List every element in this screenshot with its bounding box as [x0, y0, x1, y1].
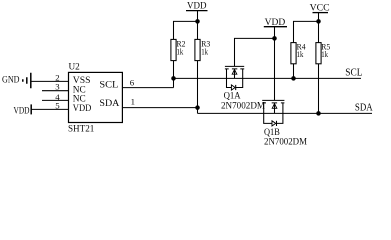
wire R3 bottom through SDA jog	[197, 61, 199, 114]
svg-text:1k: 1k	[201, 47, 208, 57]
pin 4 wire (NC stub)	[42, 99, 69, 101]
wire VDD stem to R3	[197, 21, 199, 39]
power VDD rail top-left	[186, 2, 208, 22]
resistor R3	[195, 39, 210, 61]
svg-text:1: 1	[131, 96, 135, 106]
svg-text:2N7002DM: 2N7002DM	[264, 137, 307, 147]
svg-text:SHT21: SHT21	[68, 124, 95, 134]
node SCL junction dot at R4	[291, 76, 296, 81]
wire VCC stem to R5	[318, 21, 320, 42]
wire R4 bottom to SCL	[293, 64, 295, 78]
junction dot gate bias split	[272, 36, 277, 41]
svg-text:1k: 1k	[297, 49, 304, 59]
svg-text:1k: 1k	[177, 47, 184, 57]
svg-text:VDD: VDD	[14, 106, 30, 116]
node SDA junction dot at R5	[316, 111, 321, 116]
pin 3 wire (NC stub)	[42, 90, 69, 92]
wire VDD branch to R2	[174, 21, 198, 39]
svg-text:VDD: VDD	[73, 104, 92, 114]
power VDD port left	[14, 104, 32, 116]
node SDA junction dot at R3	[195, 105, 200, 110]
svg-text:Q1A: Q1A	[224, 90, 241, 100]
svg-text:SDA: SDA	[99, 98, 119, 109]
node SCL junction dot at R2	[171, 76, 176, 81]
svg-text:SCL: SCL	[345, 67, 362, 78]
wire R5 bottom to SDA	[318, 64, 320, 113]
wire pin1 to R3 column	[122, 107, 197, 109]
junction dot VDD rail split	[195, 19, 200, 24]
resistor R5	[316, 41, 330, 64]
power VDD label mid (gate bias)	[264, 18, 287, 39]
svg-text:3: 3	[55, 82, 60, 92]
wire VCC branch to R4	[294, 21, 319, 42]
wire SCL bus	[174, 77, 362, 79]
svg-text:6: 6	[130, 78, 135, 88]
wire gate bias to Q1A gate	[235, 38, 275, 66]
svg-text:5: 5	[55, 100, 60, 110]
ground	[2, 73, 31, 89]
wire SDA bus	[198, 112, 373, 114]
svg-text:SCL: SCL	[99, 79, 118, 90]
wire gate bias to Q1B gate	[274, 38, 276, 100]
power VCC rail	[310, 4, 330, 22]
wire R2 bottom to SCL node	[173, 61, 175, 88]
op chip U2 SHT21	[68, 62, 122, 134]
svg-text:SDA: SDA	[355, 102, 373, 113]
svg-text:1k: 1k	[321, 49, 328, 59]
resistor R4	[291, 41, 306, 64]
wire pin6 to R2 column	[122, 87, 173, 89]
resistor R2	[171, 39, 186, 61]
svg-text:GND: GND	[2, 76, 20, 86]
svg-text:U2: U2	[69, 62, 81, 72]
pin 2 wire	[31, 80, 69, 82]
pin 5 wire	[31, 108, 68, 110]
transistor Q1A	[221, 66, 265, 110]
transistor Q1B	[262, 100, 307, 146]
svg-text:2N7002DM: 2N7002DM	[221, 101, 265, 111]
junction dot VCC rail split	[316, 19, 321, 24]
